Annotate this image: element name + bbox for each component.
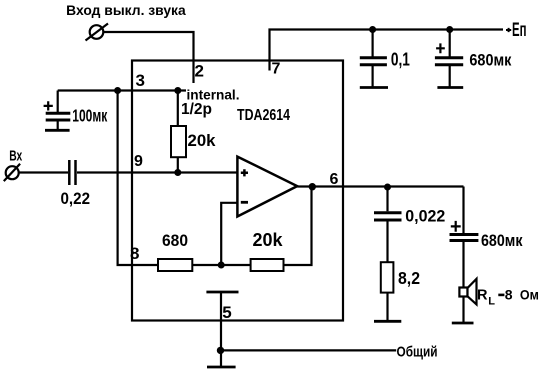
svg-text:Вх: Вх: [9, 148, 22, 165]
svg-text:1/2p: 1/2p: [181, 101, 212, 118]
svg-text:680: 680: [162, 231, 188, 250]
svg-text:680мк: 680мк: [481, 231, 523, 250]
svg-text:2: 2: [195, 62, 204, 81]
svg-text:8: 8: [505, 287, 513, 303]
svg-text:0,22: 0,22: [61, 190, 91, 208]
svg-text:Вход выкл. звука: Вход выкл. звука: [66, 3, 186, 18]
svg-text:7: 7: [272, 61, 281, 78]
svg-text:3: 3: [136, 71, 145, 90]
svg-text:8,2: 8,2: [398, 268, 420, 288]
svg-text:5: 5: [222, 303, 231, 322]
svg-text:Общий: Общий: [397, 343, 438, 360]
svg-text:100мк: 100мк: [72, 105, 107, 125]
svg-text:6: 6: [330, 171, 339, 188]
svg-text:0,1: 0,1: [391, 50, 410, 70]
svg-text:R: R: [477, 288, 488, 304]
svg-text:Ом: Ом: [520, 287, 539, 303]
svg-text:680мк: 680мк: [469, 51, 511, 70]
svg-text:8: 8: [130, 244, 139, 263]
svg-text:20k: 20k: [253, 230, 284, 250]
svg-text:20k: 20k: [188, 132, 217, 150]
svg-text:9: 9: [134, 153, 143, 170]
svg-text:internal.: internal.: [187, 86, 240, 102]
svg-text:TDA2614: TDA2614: [237, 107, 290, 124]
svg-text:Еп: Еп: [512, 20, 527, 41]
svg-text:0,022: 0,022: [405, 206, 445, 225]
svg-text:L: L: [488, 295, 495, 307]
